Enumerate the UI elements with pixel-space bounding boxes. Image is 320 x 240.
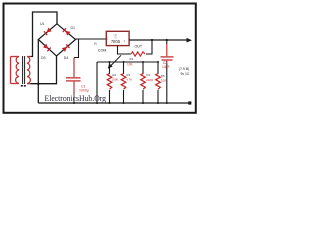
svg-text:1000µ: 1000µ [79, 89, 89, 93]
svg-text:(7.9 B): (7.9 B) [179, 67, 189, 71]
svg-text:100: 100 [161, 79, 166, 83]
svg-text:D1: D1 [71, 26, 76, 30]
svg-text:R4: R4 [147, 73, 151, 77]
svg-text:IN: IN [94, 41, 97, 45]
svg-text:220R: 220R [146, 78, 154, 82]
svg-text:COM: COM [98, 48, 106, 52]
svg-text:9v 1C: 9v 1C [181, 72, 190, 76]
svg-text:10K: 10K [127, 62, 134, 66]
svg-text:R1: R1 [130, 57, 134, 61]
svg-text:100K: 100K [112, 78, 119, 82]
svg-text:10µF: 10µF [162, 65, 170, 69]
svg-text:ElectronicsHub.Org: ElectronicsHub.Org [45, 94, 107, 103]
svg-text:7805: 7805 [111, 39, 121, 44]
svg-text:R3: R3 [127, 73, 131, 77]
svg-text:R5: R5 [161, 74, 165, 78]
svg-text:OUT: OUT [135, 45, 143, 49]
svg-text:R2: R2 [113, 73, 117, 77]
svg-text:U1: U1 [40, 22, 45, 26]
svg-text:D4: D4 [64, 56, 69, 60]
svg-text:D3: D3 [41, 56, 46, 60]
svg-text:4.7K: 4.7K [126, 78, 132, 82]
